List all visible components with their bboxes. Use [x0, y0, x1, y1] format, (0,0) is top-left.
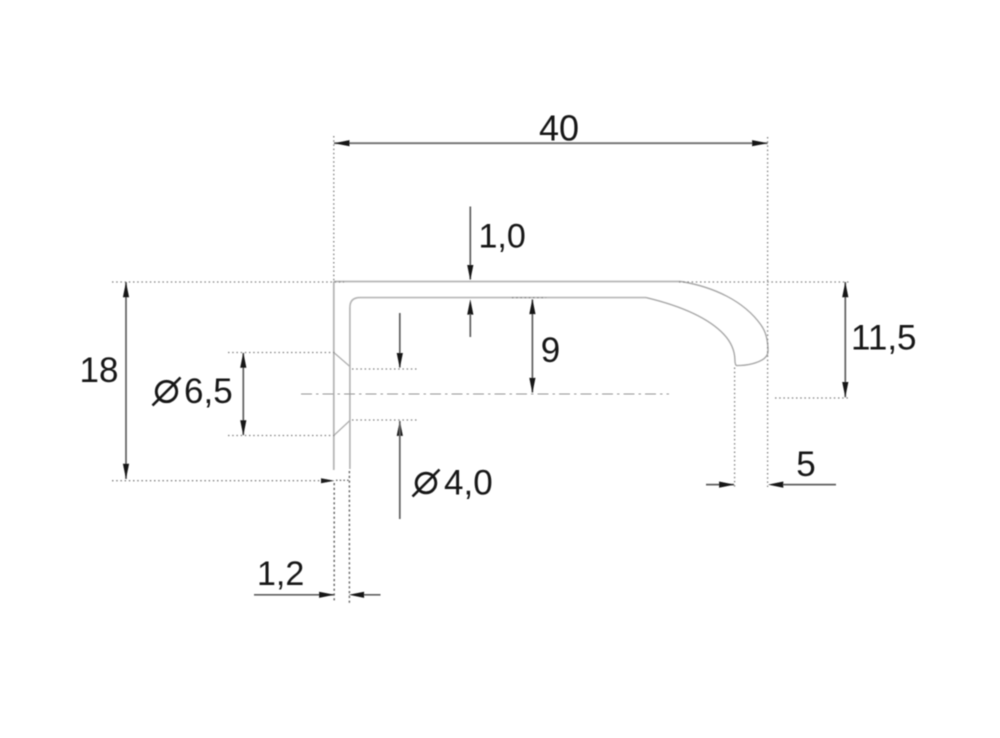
leg end witness arrowhead [321, 478, 335, 483]
dimension 18 upper arrowhead [123, 282, 129, 297]
countersink chamfer lower [334, 421, 350, 436]
dimension 4,0 lower arrowhead [397, 421, 403, 436]
dimension 5 right shaft [783, 484, 836, 486]
extension line 11.5 top (dotted horizontal) [679, 281, 849, 283]
dimension 1,0 upper arrow shaft [469, 207, 471, 280]
dimension 9 shaft [531, 300, 533, 393]
countersink chamfer upper [334, 353, 350, 367]
extension line 40 left (dotted vertical) [333, 136, 335, 281]
dimension 1,2 right shaft [364, 594, 381, 596]
dimension 18 lower arrowhead [123, 464, 129, 479]
extension line 1.2 right (dotted vertical) [348, 471, 350, 603]
profile outer top line [334, 281, 681, 283]
svg-text:4,0: 4,0 [444, 464, 493, 503]
dimension 11,5 shaft [844, 282, 846, 397]
svg-text:5: 5 [796, 445, 815, 484]
dimension 1,0 upper arrowhead [467, 265, 473, 280]
dimension 40 left arrowhead [334, 140, 350, 146]
hole center line [301, 393, 669, 395]
svg-text:1,2: 1,2 [257, 555, 304, 593]
dimension 6,5 diameter symbol [153, 378, 181, 406]
svg-text:18: 18 [80, 351, 119, 390]
dimension 11,5 lower arrowhead [842, 382, 848, 397]
extension line 9 top short (dotted horizontal) [512, 297, 546, 299]
svg-text:40: 40 [539, 108, 579, 149]
dimension 5 left shaft [706, 484, 734, 486]
profile inner corner arc [350, 298, 360, 308]
dimension 1,2 left arrowhead [319, 592, 334, 598]
dimension 1,2 right arrowhead [349, 592, 364, 598]
dimension 6,5 upper arrowhead [240, 352, 246, 367]
extension line hole 6.5 top (dotted horizontal) [228, 352, 337, 354]
extension line 18 top (dotted horizontal) [112, 281, 344, 283]
extension line 40 right / 5 right (dotted vertical) [767, 137, 769, 487]
dimension 5 right arrowhead [768, 482, 783, 488]
svg-text:6,5: 6,5 [184, 372, 233, 411]
profile outer left wall [333, 282, 335, 471]
profile inner left wall [349, 308, 351, 470]
profile inner top line [360, 297, 646, 299]
dimension 1,2 left shaft [254, 594, 334, 596]
dimension 11,5 upper arrowhead [842, 282, 848, 297]
extension line hole 6.5 bottom (dotted horizontal) [228, 435, 337, 437]
dimension 1,0 lower arrow shaft [469, 314, 471, 337]
dimension 40 line [334, 142, 768, 144]
dimension 4,0 lower arrow shaft [399, 421, 401, 519]
extension line 18 bottom (dotted horizontal) [112, 480, 323, 482]
dimension 4,0 diameter symbol [413, 470, 440, 497]
svg-text:9: 9 [541, 331, 560, 370]
extension line 5 left (dotted vertical) [734, 368, 736, 490]
dimension 6,5 shaft [242, 353, 244, 435]
leg end dotted continuation [336, 479, 350, 481]
dimension 4,0 upper arrow shaft [399, 313, 401, 368]
profile hook outer curve [681, 282, 768, 366]
extension line hole 4.0 top (dotted horizontal) [352, 368, 417, 370]
svg-text:1,0: 1,0 [479, 218, 526, 256]
dimension 4,0 upper arrowhead [397, 353, 403, 368]
dimension 5 left arrowhead [719, 482, 734, 488]
extension line 11.5 bottom (dotted horizontal) [775, 397, 849, 399]
svg-text:11,5: 11,5 [851, 319, 917, 358]
dimension 9 upper arrowhead [529, 299, 535, 314]
dimension 18 shaft [125, 282, 127, 479]
dimension 9 lower arrowhead [529, 378, 535, 393]
extension line 1.2 left (dotted vertical) [333, 483, 335, 603]
profile hook inner curve [646, 298, 735, 360]
dimension 1,0 lower arrowhead [467, 299, 473, 314]
dimension 6,5 lower arrowhead [240, 420, 246, 435]
extension line hole 4.0 bottom (dotted horizontal) [352, 419, 417, 421]
dimension 40 right arrowhead [752, 140, 768, 146]
